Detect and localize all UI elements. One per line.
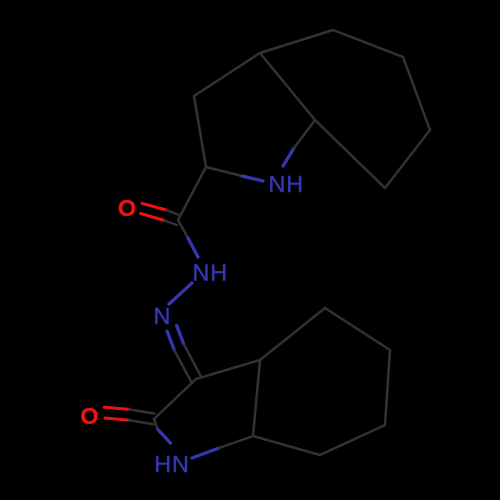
wire: bottom C3-C3a bond (196, 360, 260, 379)
wire: top pyrrolidine C2-C3 (194, 96, 206, 167)
wire: C1-N2 bond gray half (178, 220, 188, 238)
svg-text:N: N (154, 303, 172, 329)
svg-text:O: O (118, 195, 137, 221)
wire: bottom C2-N1 bond blue half (158, 430, 171, 444)
wire: bottom hexagon C5-C6 (385, 350, 390, 425)
svg-text:HN: HN (154, 451, 189, 477)
wire: bottom C2=O2 upper line gray half (129, 409, 154, 413)
wire: top hexagon C3a-C4 (260, 30, 333, 53)
wire: N3=C3 right line gray half (184, 344, 201, 376)
wire: top hexagon C4-C5 (333, 30, 403, 57)
wire: bottom C2-N1 bond gray half (154, 419, 158, 430)
wire: bottom C2=O2 lower line red half (105, 418, 129, 420)
wire: top N-C7a bond gray half (294, 120, 315, 148)
svg-text:O: O (80, 403, 99, 429)
wire: C1-N2 bond blue half (188, 238, 198, 257)
wire: top N-C2 bond gray half (206, 167, 242, 176)
wire: bottom hexagon C3a-C4 (260, 308, 325, 360)
wire: top hexagon C7-C7a (315, 120, 385, 188)
wire: C1=O1 lower line gray half (164, 221, 177, 226)
wire: C1=O1 lower line red half (141, 214, 165, 221)
wire: C1=O1 upper line gray half (167, 210, 180, 215)
wire: N3=C3 left line gray half (174, 350, 191, 382)
svg-text:NH: NH (193, 260, 228, 286)
wire: N3=C3 left line blue half (167, 331, 174, 350)
wire: top N-C2 bond blue half (242, 176, 263, 181)
wire: bottom hexagon C7-C7a (253, 436, 320, 455)
wire: bottom C2=O2 lower line gray half (129, 420, 153, 424)
wire: bottom fused edge C3a-C7a (253, 360, 260, 436)
wire: bottom hexagon C6-C7 (320, 425, 385, 455)
wire: bottom N1-C7a bond gray half (219, 436, 253, 448)
wire: N3=C3 right line blue half (177, 325, 184, 344)
wire: bottom N1-C7a bond blue half (192, 448, 219, 458)
wire: top hexagon C6-C7 (385, 130, 430, 188)
wire: N2-N3 bond (169, 283, 192, 304)
wire: top hexagon C5-C6 (403, 57, 430, 130)
wire: top fused edge C3a-C7a (260, 53, 315, 120)
wire: C2-C1 bond (178, 167, 206, 220)
wire: bottom C2=O2 upper line red half (104, 407, 129, 409)
wire: bottom C3-C2 bond (154, 379, 196, 419)
wire: top N-C7a bond blue half (283, 148, 294, 166)
wire: top pyrrolidine C3-C3a (194, 53, 260, 96)
wire: bottom hexagon C4-C5 (325, 308, 390, 350)
wire: C1=O1 upper line red half (142, 203, 167, 210)
svg-text:NH: NH (269, 171, 304, 197)
